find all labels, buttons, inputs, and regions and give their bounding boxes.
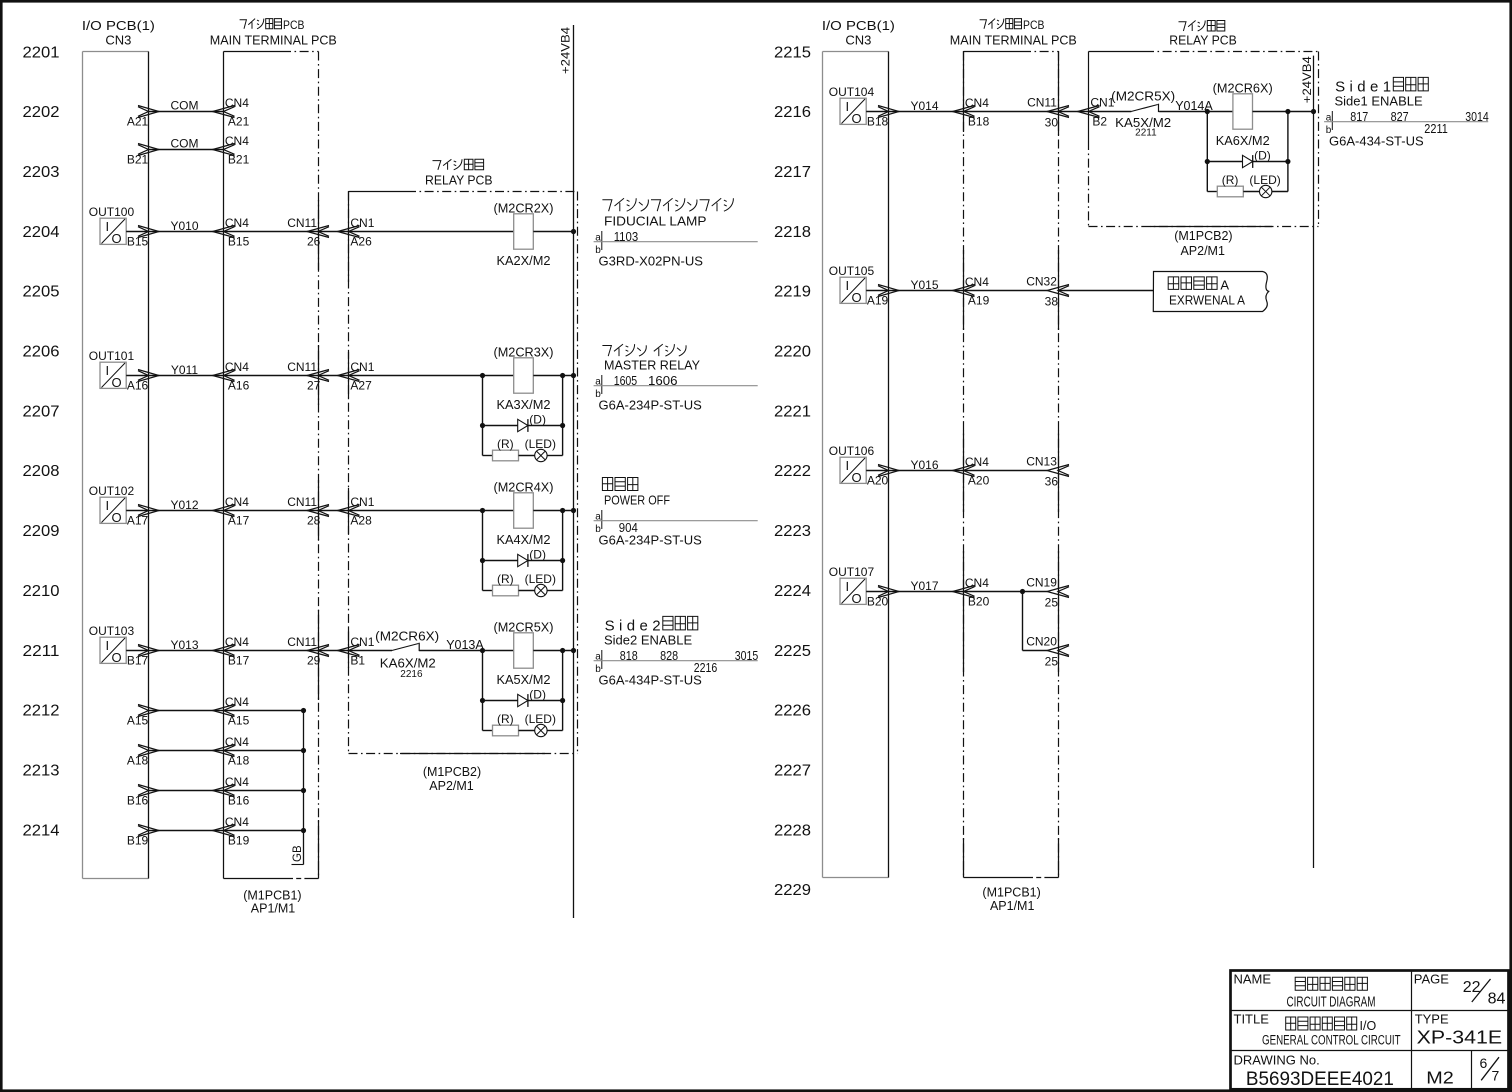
svg-text:A20: A20 — [867, 473, 889, 487]
svg-text:(R): (R) — [497, 572, 514, 586]
svg-text:A19: A19 — [968, 293, 990, 307]
svg-text:CN11: CN11 — [287, 216, 317, 230]
svg-text:2223: 2223 — [774, 523, 811, 540]
svg-text:(R): (R) — [497, 712, 514, 726]
svg-text:COM: COM — [171, 137, 199, 151]
svg-text:CN19: CN19 — [1026, 575, 1057, 589]
svg-text:I: I — [846, 278, 850, 293]
svg-text:I: I — [106, 498, 110, 513]
svg-text:CN1: CN1 — [350, 216, 374, 230]
svg-text:CN1: CN1 — [350, 360, 374, 374]
svg-text:O: O — [112, 231, 122, 246]
svg-text:1606: 1606 — [648, 374, 678, 388]
svg-text:(M2CR4X): (M2CR4X) — [494, 481, 554, 495]
svg-text:KA4X/M2: KA4X/M2 — [497, 532, 551, 547]
svg-text:EXRWENAL A: EXRWENAL A — [1169, 293, 1245, 308]
svg-text:CN1: CN1 — [350, 635, 374, 649]
svg-text:+24VB4: +24VB4 — [559, 27, 573, 74]
svg-text:CN11: CN11 — [1027, 95, 1057, 109]
svg-text:O: O — [852, 470, 862, 485]
svg-text:KA5X/M2: KA5X/M2 — [497, 672, 551, 687]
svg-text:M2: M2 — [1426, 1067, 1454, 1087]
svg-text:A21: A21 — [228, 114, 250, 128]
svg-text:GENERAL CONTROL CIRCUIT: GENERAL CONTROL CIRCUIT — [1262, 1032, 1401, 1047]
svg-text:2228: 2228 — [774, 822, 811, 839]
svg-text:CN32: CN32 — [1026, 274, 1057, 288]
svg-text:CN1: CN1 — [350, 495, 374, 509]
svg-text:CN4: CN4 — [225, 735, 249, 749]
svg-text:CN3: CN3 — [105, 33, 131, 48]
svg-text:CN11: CN11 — [287, 495, 317, 509]
svg-text:CN4: CN4 — [225, 815, 249, 829]
svg-text:3015: 3015 — [735, 649, 759, 663]
svg-text:I/O PCB(1): I/O PCB(1) — [82, 18, 155, 33]
svg-text:B1: B1 — [350, 654, 365, 668]
svg-text:B18: B18 — [867, 114, 889, 128]
svg-text:G6A-434-ST-US: G6A-434-ST-US — [1329, 134, 1424, 149]
svg-text:A16: A16 — [228, 378, 250, 392]
svg-text:CN4: CN4 — [225, 775, 249, 789]
svg-text:CN4: CN4 — [965, 96, 989, 110]
svg-text:CIRCUIT DIAGRAM: CIRCUIT DIAGRAM — [1287, 994, 1376, 1010]
svg-text:A15: A15 — [127, 713, 149, 727]
svg-text:KA3X/M2: KA3X/M2 — [497, 397, 551, 412]
svg-text:CN11: CN11 — [287, 635, 317, 649]
svg-text:A15: A15 — [228, 713, 250, 727]
svg-text:(R): (R) — [1222, 173, 1239, 187]
svg-text:AP1/M1: AP1/M1 — [251, 901, 296, 915]
svg-text:(LED): (LED) — [525, 437, 556, 451]
svg-text:84: 84 — [1488, 991, 1506, 1008]
svg-text:29: 29 — [307, 654, 321, 668]
svg-text:(M2CR5X): (M2CR5X) — [1111, 89, 1175, 103]
svg-text:2221: 2221 — [774, 403, 811, 420]
svg-text:COM: COM — [171, 99, 199, 113]
svg-text:27: 27 — [307, 379, 321, 393]
svg-text:O: O — [112, 650, 122, 665]
svg-text:O: O — [112, 375, 122, 390]
svg-text:O: O — [112, 510, 122, 525]
svg-text:(M2CR3X): (M2CR3X) — [494, 346, 554, 360]
svg-text:RELAY PCB: RELAY PCB — [425, 173, 493, 188]
svg-text:Y010: Y010 — [170, 219, 198, 233]
svg-text:2203: 2203 — [23, 164, 60, 181]
svg-text:I: I — [846, 458, 850, 473]
svg-text:26: 26 — [307, 235, 321, 249]
svg-text:2204: 2204 — [23, 224, 60, 241]
svg-text:FIDUCIAL LAMP: FIDUCIAL LAMP — [604, 214, 707, 229]
svg-text:I/O: I/O — [1360, 1019, 1377, 1033]
svg-text:B15: B15 — [127, 234, 149, 248]
svg-text:2209: 2209 — [23, 523, 60, 540]
svg-text:Y013A: Y013A — [446, 638, 484, 652]
svg-text:A19: A19 — [867, 293, 889, 307]
svg-text:25: 25 — [1045, 654, 1059, 668]
svg-text:Y017: Y017 — [910, 579, 938, 593]
svg-text:A18: A18 — [228, 753, 250, 767]
svg-text:CN4: CN4 — [225, 216, 249, 230]
svg-text:KA2X/M2: KA2X/M2 — [497, 253, 551, 268]
svg-text:A28: A28 — [350, 514, 372, 528]
svg-text:B15: B15 — [228, 234, 250, 248]
svg-text:828: 828 — [660, 649, 678, 663]
svg-text:B17: B17 — [228, 653, 250, 667]
svg-text:Y016: Y016 — [910, 458, 938, 472]
svg-text:G6A-234P-ST-US: G6A-234P-ST-US — [599, 398, 703, 413]
svg-text:(LED): (LED) — [1249, 173, 1280, 187]
svg-text:2220: 2220 — [774, 344, 811, 361]
svg-text:Y011: Y011 — [171, 363, 198, 377]
svg-text:B16: B16 — [127, 793, 149, 807]
svg-text:A: A — [1220, 277, 1229, 292]
svg-text:(D): (D) — [529, 688, 546, 702]
svg-text:2205: 2205 — [23, 284, 60, 301]
svg-text:(M2CR6X): (M2CR6X) — [375, 630, 439, 644]
svg-text:(D): (D) — [529, 413, 546, 427]
svg-text:CN13: CN13 — [1026, 454, 1057, 468]
svg-text:O: O — [852, 111, 862, 126]
svg-text:2219: 2219 — [774, 284, 811, 301]
svg-text:25: 25 — [1045, 595, 1059, 609]
svg-text:Side1 ENABLE: Side1 ENABLE — [1335, 94, 1423, 109]
svg-text:(M1PCB2): (M1PCB2) — [1174, 229, 1232, 243]
svg-text:POWER OFF: POWER OFF — [604, 493, 670, 508]
svg-text:2211: 2211 — [1424, 122, 1448, 136]
svg-text:2222: 2222 — [774, 463, 811, 480]
svg-text:2216: 2216 — [400, 669, 423, 680]
svg-text:I: I — [106, 219, 110, 234]
svg-text:B18: B18 — [968, 114, 990, 128]
svg-text:I: I — [106, 363, 110, 378]
svg-text:38: 38 — [1045, 294, 1059, 308]
svg-text:B20: B20 — [867, 594, 889, 608]
svg-text:(M1PCB2): (M1PCB2) — [423, 765, 481, 779]
svg-text:OUT100: OUT100 — [89, 205, 135, 219]
svg-text:2216: 2216 — [774, 104, 811, 121]
svg-text:+24VB4: +24VB4 — [1300, 56, 1314, 103]
svg-text:PCB: PCB — [283, 18, 304, 32]
svg-text:RELAY PCB: RELAY PCB — [1169, 33, 1237, 48]
svg-text:CN4: CN4 — [225, 96, 249, 110]
svg-text:(D): (D) — [529, 548, 546, 562]
svg-text:827: 827 — [1391, 110, 1409, 124]
svg-text:30: 30 — [1045, 115, 1059, 129]
svg-text:28: 28 — [307, 514, 321, 528]
svg-text:Y014: Y014 — [910, 99, 938, 113]
svg-text:CN20: CN20 — [1026, 634, 1057, 648]
svg-text:GB: GB — [292, 845, 304, 862]
svg-text:B19: B19 — [228, 833, 250, 847]
svg-text:CN3: CN3 — [845, 33, 871, 48]
svg-text:(M2CR2X): (M2CR2X) — [494, 202, 554, 216]
svg-text:A27: A27 — [350, 379, 372, 393]
svg-text:(M2CR5X): (M2CR5X) — [494, 621, 554, 635]
svg-text:I: I — [846, 579, 850, 594]
svg-text:2207: 2207 — [23, 403, 60, 420]
svg-text:B5693DEEE4021: B5693DEEE4021 — [1246, 1069, 1394, 1090]
svg-text:2211: 2211 — [1135, 127, 1157, 138]
svg-text:G6A-234P-ST-US: G6A-234P-ST-US — [599, 533, 703, 548]
svg-text:1103: 1103 — [614, 230, 639, 244]
svg-text:A21: A21 — [127, 114, 149, 128]
svg-text:B2: B2 — [1092, 115, 1107, 129]
svg-text:OUT105: OUT105 — [829, 264, 875, 278]
svg-text:B21: B21 — [127, 152, 149, 166]
svg-text:36: 36 — [1045, 474, 1059, 488]
svg-text:CN4: CN4 — [225, 695, 249, 709]
svg-text:I: I — [846, 99, 850, 114]
svg-text:(LED): (LED) — [525, 572, 556, 586]
svg-text:Y013: Y013 — [170, 638, 198, 652]
svg-text:6: 6 — [1480, 1055, 1488, 1071]
svg-text:G6A-434P-ST-US: G6A-434P-ST-US — [599, 673, 703, 688]
svg-text:CN4: CN4 — [225, 134, 249, 148]
svg-text:(LED): (LED) — [525, 712, 556, 726]
svg-text:2215: 2215 — [774, 44, 811, 61]
svg-text:B21: B21 — [228, 152, 250, 166]
svg-text:AP2/M1: AP2/M1 — [429, 779, 474, 793]
svg-text:KA6X/M2: KA6X/M2 — [1216, 133, 1270, 148]
svg-text:CN4: CN4 — [225, 635, 249, 649]
svg-text:A16: A16 — [127, 378, 149, 392]
svg-text:2210: 2210 — [23, 583, 60, 600]
svg-text:817: 817 — [1350, 110, 1368, 124]
svg-text:CN4: CN4 — [965, 576, 989, 590]
svg-text:B16: B16 — [228, 793, 250, 807]
svg-text:Side2 ENABLE: Side2 ENABLE — [604, 633, 692, 648]
svg-text:OUT106: OUT106 — [829, 444, 875, 458]
svg-text:B17: B17 — [127, 653, 149, 667]
svg-text:2229: 2229 — [774, 882, 811, 899]
svg-text:CN4: CN4 — [965, 275, 989, 289]
svg-text:(M1PCB1): (M1PCB1) — [982, 886, 1040, 900]
svg-text:TYPE: TYPE — [1415, 1012, 1449, 1027]
svg-text:Y015: Y015 — [910, 278, 938, 292]
svg-text:O: O — [852, 290, 862, 305]
svg-text:PAGE: PAGE — [1414, 972, 1449, 987]
svg-text:(M1PCB1): (M1PCB1) — [243, 888, 301, 902]
svg-text:MASTER RELAY: MASTER RELAY — [604, 358, 700, 373]
svg-text:2225: 2225 — [774, 643, 811, 660]
svg-text:OUT103: OUT103 — [89, 624, 135, 638]
svg-text:(D): (D) — [1254, 149, 1271, 163]
svg-text:B20: B20 — [968, 594, 990, 608]
svg-text:A17: A17 — [127, 513, 149, 527]
svg-text:2201: 2201 — [23, 44, 60, 61]
svg-text:MAIN TERMINAL PCB: MAIN TERMINAL PCB — [950, 33, 1077, 48]
svg-text:2213: 2213 — [23, 763, 60, 780]
svg-text:A17: A17 — [228, 513, 250, 527]
svg-text:2208: 2208 — [23, 463, 60, 480]
svg-text:2211: 2211 — [23, 643, 60, 660]
svg-text:2226: 2226 — [774, 703, 811, 720]
svg-text:A20: A20 — [968, 473, 990, 487]
svg-text:CN4: CN4 — [965, 455, 989, 469]
svg-text:OUT102: OUT102 — [89, 484, 135, 498]
svg-text:2218: 2218 — [774, 224, 811, 241]
svg-text:2206: 2206 — [23, 344, 60, 361]
svg-text:2214: 2214 — [23, 822, 60, 839]
svg-text:DRAWING No.: DRAWING No. — [1234, 1052, 1320, 1067]
svg-text:2224: 2224 — [774, 583, 811, 600]
svg-text:AP2/M1: AP2/M1 — [1180, 244, 1225, 258]
svg-text:OUT101: OUT101 — [89, 349, 135, 363]
svg-text:Y012: Y012 — [170, 498, 198, 512]
svg-text:I: I — [106, 638, 110, 653]
svg-text:TITLE: TITLE — [1234, 1012, 1270, 1027]
svg-text:O: O — [852, 591, 862, 606]
svg-text:I/O PCB(1): I/O PCB(1) — [822, 18, 895, 33]
svg-text:1605: 1605 — [614, 374, 638, 388]
svg-text:7: 7 — [1492, 1068, 1500, 1084]
svg-text:2227: 2227 — [774, 763, 811, 780]
svg-text:PCB: PCB — [1023, 18, 1044, 32]
svg-text:(M2CR6X): (M2CR6X) — [1213, 82, 1273, 96]
svg-text:NAME: NAME — [1234, 972, 1272, 987]
svg-text:2217: 2217 — [774, 164, 811, 181]
svg-text:A18: A18 — [127, 753, 149, 767]
svg-text:G3RD-X02PN-US: G3RD-X02PN-US — [599, 254, 704, 269]
svg-text:(R): (R) — [497, 437, 514, 451]
svg-text:A26: A26 — [350, 235, 372, 249]
svg-text:AP1/M1: AP1/M1 — [990, 899, 1035, 913]
svg-text:XP-341E: XP-341E — [1417, 1027, 1503, 1048]
svg-text:B19: B19 — [127, 833, 149, 847]
svg-text:818: 818 — [620, 649, 638, 663]
svg-text:2212: 2212 — [23, 703, 60, 720]
svg-text:CN11: CN11 — [287, 360, 317, 374]
svg-text:2202: 2202 — [23, 104, 60, 121]
svg-text:OUT107: OUT107 — [829, 565, 875, 579]
svg-text:CN4: CN4 — [225, 495, 249, 509]
svg-text:MAIN TERMINAL PCB: MAIN TERMINAL PCB — [210, 33, 337, 48]
svg-text:OUT104: OUT104 — [829, 85, 875, 99]
svg-text:3014: 3014 — [1465, 110, 1489, 124]
svg-text:CN4: CN4 — [225, 360, 249, 374]
